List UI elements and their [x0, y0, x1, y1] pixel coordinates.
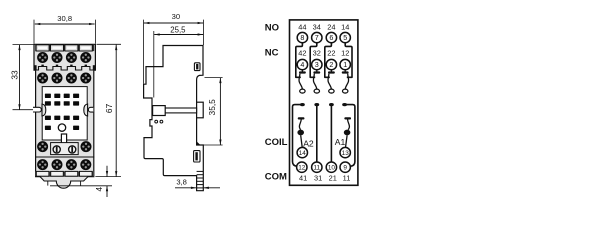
latch hook top: [197, 141, 201, 145]
pin 1 (NC 12): [340, 59, 350, 69]
pin 7 (NO 34): [312, 32, 322, 42]
terminal cover 4: [79, 45, 92, 51]
svg-text:8: 8: [300, 33, 304, 42]
terminal opening 4: [80, 171, 93, 176]
wiring diagram box: [290, 20, 358, 185]
svg-text:35,5: 35,5: [207, 99, 217, 116]
pin 8 (NO 44): [297, 32, 307, 42]
relay pin hole r1c1: [45, 94, 51, 98]
svg-text:25,5: 25,5: [170, 26, 186, 35]
svg-text:30: 30: [172, 12, 180, 21]
movable blade pole 2: [328, 74, 331, 90]
detail window upper: [194, 63, 200, 71]
blade tip pole 4: [300, 89, 305, 93]
slotted screw right: [69, 146, 76, 153]
relay pin hole r1c3: [64, 94, 70, 98]
svg-text:A2: A2: [303, 138, 314, 148]
ejector slot: [61, 134, 66, 152]
pin 3 (NC 32): [312, 59, 322, 69]
pin 2 (NC 22): [326, 59, 336, 69]
NC fixed contact pole 3: [316, 70, 318, 72]
COM pivot pole 4: [300, 103, 305, 106]
wire COM pole 4 (via left): [293, 105, 303, 167]
NC fixed contact pole 2: [330, 70, 332, 72]
svg-text:9: 9: [343, 165, 347, 172]
relay pin hole r2c1: [45, 101, 51, 105]
release lever: [197, 102, 204, 118]
svg-text:COIL: COIL: [265, 137, 288, 148]
lower recess with slotted screws: [51, 143, 79, 155]
svg-text:COM: COM: [265, 171, 287, 182]
screw terminal bottom col1: [37, 159, 48, 170]
svg-text:13: 13: [342, 150, 350, 157]
wire COM pole 1 (via right): [345, 105, 355, 167]
svg-text:14: 14: [299, 150, 307, 157]
svg-text:4: 4: [95, 186, 104, 191]
coil branch A2: [298, 117, 305, 119]
slotted screw left: [53, 146, 60, 153]
screw terminal row2 col3: [66, 73, 77, 84]
foot ticks: [47, 181, 49, 186]
relay pin hole r3c1: [45, 116, 51, 120]
svg-text:3,8: 3,8: [176, 178, 187, 187]
pin 14 (coil A2): [297, 147, 307, 157]
relay pin hole r1c4: [73, 94, 79, 98]
COM pivot pole 1: [342, 103, 347, 106]
screw terminal bottom col3: [66, 159, 77, 170]
relay pin hole r3c3: [64, 116, 70, 120]
svg-text:A1: A1: [335, 137, 346, 147]
coil branch A1: [344, 117, 351, 119]
COM pivot pole 3: [314, 103, 319, 106]
screw terminal row1 col4: [80, 52, 91, 63]
wire NO pole 1: [345, 43, 352, 78]
svg-text:12: 12: [341, 49, 349, 58]
movable blade pole 3: [313, 74, 316, 90]
blade tip pole 1: [343, 89, 348, 93]
svg-text:10: 10: [328, 165, 336, 172]
screw terminal row2 col2: [52, 73, 63, 84]
wire COM pole 3: [316, 105, 318, 162]
svg-text:NO: NO: [265, 23, 279, 34]
screw terminal row2 col1: [37, 73, 48, 84]
relay pin hole r2c3: [64, 101, 70, 105]
terminal openings bottom: [35, 171, 94, 176]
side holes: [155, 120, 158, 123]
pin 13 (coil A1): [340, 147, 350, 157]
svg-text:11: 11: [343, 174, 351, 183]
terminal cover 1: [36, 45, 49, 51]
screw terminal row1 col2: [52, 52, 63, 63]
svg-text:NC: NC: [265, 48, 279, 59]
detail window lower: [194, 151, 200, 162]
clip left: [42, 104, 46, 116]
svg-text:32: 32: [313, 49, 321, 58]
pin 5 (NO 14): [340, 32, 350, 42]
svg-text:14: 14: [341, 22, 349, 31]
center hole ring: [58, 124, 65, 131]
svg-text:11: 11: [313, 165, 320, 172]
screw terminal row1 col1: [37, 52, 48, 63]
screw terminal row1 col3: [66, 52, 77, 63]
castellated divider: [35, 67, 95, 71]
relay pin hole r3c4: [73, 116, 79, 120]
svg-text:41: 41: [299, 174, 307, 183]
svg-text:30,8: 30,8: [57, 14, 72, 23]
wire NO pole 2: [325, 43, 332, 78]
svg-text:1: 1: [343, 60, 347, 69]
terminal opening 2: [51, 171, 64, 176]
svg-text:34: 34: [313, 22, 321, 31]
screw terminal bottom col4: [80, 159, 91, 170]
NC fixed contact pole 1: [344, 70, 346, 72]
svg-text:4: 4: [300, 60, 304, 69]
terminal opening 1: [36, 171, 49, 176]
svg-text:12: 12: [298, 165, 306, 172]
terminal cover 2: [51, 45, 64, 51]
svg-text:2: 2: [329, 60, 333, 69]
svg-text:31: 31: [314, 174, 322, 183]
relay pin hole r3c2: [54, 116, 60, 120]
clip right: [84, 104, 88, 116]
relay pin hole r4c1: [45, 126, 51, 130]
rail foot hatch: [197, 170, 204, 172]
pin 6 (NO 24): [326, 32, 336, 42]
pin 12 (COM 41): [297, 162, 307, 172]
svg-text:22: 22: [327, 49, 335, 58]
blade tip pole 3: [314, 89, 319, 93]
relay pin hole r2c2: [54, 101, 60, 105]
svg-text:44: 44: [298, 22, 306, 31]
center pin field: [42, 87, 87, 140]
relay pin hole r1c2: [54, 94, 60, 98]
side view outline: [144, 46, 204, 191]
wire COM pole 2: [330, 105, 332, 162]
blade tip pole 2: [329, 89, 334, 93]
svg-text:21: 21: [329, 174, 337, 183]
wire NO pole 4: [296, 43, 303, 78]
terminal opening 3: [65, 171, 78, 176]
svg-text:6: 6: [329, 33, 333, 42]
wire NO pole 3: [310, 43, 317, 78]
terminal cover strip: [35, 45, 94, 51]
screw terminal bottom col2: [52, 159, 63, 170]
svg-text:7: 7: [315, 33, 319, 42]
svg-text:5: 5: [343, 33, 347, 42]
pin 11 (COM 31): [312, 162, 322, 172]
movable blade pole 1: [345, 74, 348, 90]
terminal cover 3: [65, 45, 78, 51]
svg-text:24: 24: [327, 22, 335, 31]
pin 10 (COM 21): [326, 162, 336, 172]
svg-text:67: 67: [104, 103, 114, 113]
NC fixed contact pole 4: [301, 70, 303, 72]
svg-text:42: 42: [298, 49, 306, 58]
screw mid right: [81, 141, 92, 152]
screw terminal row2 col4: [80, 73, 91, 84]
svg-text:33: 33: [9, 70, 19, 80]
relay pin hole r2c4: [73, 101, 79, 105]
socket body front view: [34, 44, 95, 176]
screw mid left: [37, 141, 48, 152]
movable blade pole 4: [299, 74, 302, 90]
relay pin hole r4c2: [73, 126, 79, 130]
svg-text:3: 3: [315, 60, 319, 69]
pin 4 (NC 42): [297, 59, 307, 69]
foot tab bottom: [40, 177, 88, 189]
pin 9 (COM 11): [340, 162, 350, 172]
COM pivot pole 2: [329, 103, 334, 106]
